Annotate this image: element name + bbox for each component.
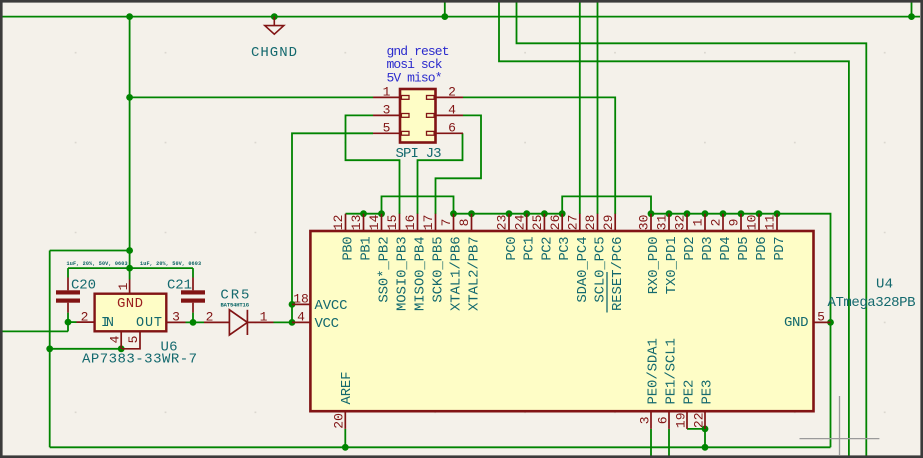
junction MCU pin24	[523, 210, 530, 217]
U4 pin 32 (PD2) - stub	[686, 214, 688, 231]
U4 pin 19 (PE2) - stub	[686, 411, 688, 429]
wire - SPI pin5 5V net down to AVCC/VCC	[292, 133, 373, 322]
svg-text:VCC: VCC	[315, 316, 340, 332]
junction left rail / SPI pin1 wire	[126, 94, 133, 101]
svg-text:RX0_PD0: RX0_PD0	[646, 236, 662, 294]
svg-text:SDA0_PC4: SDA0_PC4	[575, 236, 591, 302]
svg-text:2: 2	[206, 309, 214, 324]
junction top rail / left rail	[126, 13, 133, 20]
wire - horizontal y=250.5 from x=49.7 to left rail	[50, 250, 130, 252]
svg-text:TX0_PD1: TX0_PD1	[664, 236, 680, 294]
junction C20 bottom / U6 IN	[65, 319, 72, 326]
svg-text:26: 26	[548, 215, 563, 231]
wire - left vertical x=49.7 down to bottom rail	[49, 251, 51, 448]
power symbol CHGND - stem	[273, 17, 275, 26]
U4 pin 13 (PB1) - stub	[363, 214, 365, 231]
wire - MCU pins 7-26 tie	[454, 213, 563, 215]
connector J3 pin 6 - socket	[427, 131, 435, 135]
svg-text:5V miso*: 5V miso*	[387, 71, 443, 86]
capacitor C20 - bottom lead	[67, 303, 69, 313]
svg-text:6: 6	[655, 416, 670, 424]
svg-text:3: 3	[172, 309, 180, 324]
U4 pin 15 (MOSI0_PB3) - stub	[399, 214, 401, 231]
svg-text:9: 9	[727, 218, 742, 226]
svg-text:4: 4	[448, 103, 456, 118]
connector J3 - body	[400, 89, 436, 143]
diode CR5 - cathode bar	[246, 310, 248, 335]
U4 pin 18 (AVCC) - stub	[292, 303, 310, 305]
U4 pin 31 (TX0_PD1) - stub	[668, 214, 670, 231]
capacitor C21 - spec text 1uF 20% 50V 0603	[140, 261, 201, 267]
svg-text:XTAL1/PB6: XTAL1/PB6	[449, 236, 465, 311]
junction MCU pin11	[774, 210, 781, 217]
connector J3 pin 4 - stub	[436, 114, 464, 116]
junction MCU pin9	[738, 210, 745, 217]
svg-text:AVCC: AVCC	[315, 298, 348, 314]
junction top rail / top stub	[441, 13, 448, 20]
junction PE3 pin	[702, 426, 709, 433]
junction MCU pin14	[378, 210, 385, 217]
U4 pin 5 (GND) - stub	[814, 321, 831, 323]
U4 pin 26 (PC3) - stub	[561, 214, 563, 231]
svg-text:2: 2	[448, 85, 456, 100]
svg-text:GND: GND	[784, 315, 809, 331]
svg-text:32: 32	[673, 215, 688, 231]
svg-text:PB0: PB0	[341, 236, 357, 260]
regulator U6 pin 1 - stub	[129, 280, 131, 294]
U4 pin 22 (PE3) - stub	[704, 411, 706, 429]
svg-text:29: 29	[601, 215, 616, 231]
regulator U6 pin 5 - stub (bent)	[122, 331, 140, 349]
capacitor C21 - bottom lead	[192, 303, 194, 313]
svg-text:PE3: PE3	[700, 380, 716, 405]
svg-text:31: 31	[655, 214, 670, 230]
svg-text:2: 2	[81, 309, 89, 324]
svg-text:5: 5	[383, 121, 391, 136]
cursor crosshair - vertical	[839, 396, 841, 455]
U4 pin 1 (PD3) - stub	[704, 214, 706, 231]
wire - AREF pin drop to bottom rail	[344, 429, 346, 447]
connector J3 pin 1 - socket	[401, 96, 409, 100]
U4 pin 10 (PD6) - stub	[758, 214, 760, 231]
U4 pin 9 (PD5) - stub	[740, 214, 742, 231]
IC U4 ATmega328PB - body	[310, 231, 813, 411]
wire - riser pin14 to upper bus	[382, 196, 454, 213]
svg-text:30: 30	[637, 215, 652, 231]
junction left rail / cap tie	[126, 265, 133, 272]
capacitor C20 - top plate	[56, 290, 80, 294]
junction MCU pin23	[506, 210, 513, 217]
capacitor C21 - bottom plate	[181, 299, 205, 303]
U4 pin 16 (MISO0_PB4) - stub	[417, 214, 419, 231]
connector J3 pin 5 - socket	[401, 131, 409, 135]
wire - jog pin26 over pins27-29 to pin30	[562, 196, 651, 213]
U4 pin 6 (PE1/SCL1) - stub	[668, 411, 670, 429]
wire - stub from top border to top rail at x=911.5	[911, 1, 913, 17]
U4 pin 4 (VCC) - stub	[292, 321, 310, 323]
wire - U6 OUT to CR5 anode	[186, 321, 205, 323]
U4 pin 7 (XTAL1/PB6) - stub	[453, 214, 455, 231]
connector J3 pin 3 - stub	[373, 114, 400, 116]
junction MCU pin2	[720, 210, 727, 217]
svg-text:1uF, 20%, 50V, 0603: 1uF, 20%, 50V, 0603	[140, 261, 201, 267]
diode CR5 pin 1 - stub (cathode)	[247, 321, 273, 323]
wire - C21 top lead drop	[192, 268, 194, 277]
regulator U6 pin 2 - stub	[77, 321, 95, 323]
junction MCU pin8	[468, 210, 475, 217]
svg-text:5: 5	[126, 336, 141, 344]
svg-text:5: 5	[817, 310, 825, 325]
junction U6 pin4/pin5 tie	[118, 345, 125, 352]
U4 pin 29 - RESET overline	[606, 272, 608, 313]
svg-text:23: 23	[495, 215, 510, 231]
diode CR5 pin 2 - stub (anode)	[204, 321, 229, 323]
U4 pin 17 (SCK0_PB5) - stub	[435, 214, 437, 231]
svg-text:PC1: PC1	[522, 236, 538, 260]
U4 pin 14 (SS0*_PB2) - stub	[381, 214, 383, 231]
U4 pin 27 (SDA0_PC4) - stub	[579, 214, 581, 231]
svg-text:3: 3	[383, 103, 391, 118]
svg-text:18: 18	[293, 292, 309, 307]
regulator U6 - body	[95, 294, 167, 332]
svg-text:27: 27	[565, 215, 580, 231]
capacitor C21 - top lead	[192, 278, 194, 291]
svg-text:17: 17	[421, 215, 436, 231]
U4 pin 8 (XTAL2/PB7) - stub	[471, 214, 473, 231]
svg-text:PE2: PE2	[682, 380, 698, 405]
power symbol CHGND - open triangle	[265, 26, 284, 35]
junction AREF / bottom rail	[342, 444, 349, 451]
U4 pin 24 (PC1) - stub	[526, 214, 528, 231]
svg-text:6: 6	[448, 121, 456, 136]
wire - net from top border, corner at y=61.3 to x=848.9 down to bottom border	[499, 1, 849, 456]
connector J3 pin 3 - socket	[401, 114, 409, 118]
capacitor C20 - top lead	[67, 278, 69, 291]
junction C21 bottom / OUT net	[190, 319, 197, 326]
junction MCU pin1	[702, 210, 709, 217]
connector J3 pin 4 - socket	[427, 114, 435, 118]
svg-text:PD3: PD3	[700, 236, 716, 260]
svg-text:PD6: PD6	[754, 236, 770, 260]
svg-text:SCK0_PB5: SCK0_PB5	[431, 236, 447, 302]
svg-text:16: 16	[403, 215, 418, 231]
svg-text:24: 24	[512, 214, 527, 230]
diode CR5 - part number BAT54HT1G	[221, 302, 250, 309]
junction top rail / CHGND	[271, 13, 278, 20]
svg-text:8: 8	[457, 218, 472, 226]
U4 pin 20 (AREF) - stub	[344, 411, 346, 429]
U4 pin 25 (PC2) - stub	[543, 214, 545, 231]
regulator U6 pin 3 - stub	[166, 321, 185, 323]
svg-text:1: 1	[260, 309, 268, 324]
wire - pin11 net right side down to bottom rail (through GND pin)	[777, 214, 831, 448]
wire - C20 bottom lead / U6 IN junction vertical	[67, 313, 69, 332]
svg-text:PC2: PC2	[539, 236, 555, 260]
svg-text:MOSI0_PB3: MOSI0_PB3	[395, 236, 411, 311]
svg-text:28: 28	[583, 215, 598, 231]
svg-text:AP7383-33WR-7: AP7383-33WR-7	[82, 352, 197, 368]
connector J3 pin 2 - stub	[436, 96, 464, 98]
wire - stub from top border to top rail at x=444.8	[444, 1, 446, 17]
svg-text:PC0: PC0	[504, 236, 520, 260]
cursor crosshair - horizontal	[800, 438, 880, 440]
svg-text:2: 2	[709, 218, 724, 226]
svg-text:25: 25	[530, 215, 545, 231]
U4 pin 28 (SCL0_PC5) - stub	[597, 214, 599, 231]
wire - SPI pin3 MOSI net to MCU pin15	[346, 115, 400, 214]
wire - net from top border, corner at y=43.3 to x=866.3 down to bottom border	[517, 1, 867, 456]
svg-text:PE0/SDA1: PE0/SDA1	[646, 338, 662, 404]
connector J3 pin 1 - stub	[373, 96, 400, 98]
junction left rail / y250 wire	[126, 247, 133, 254]
svg-text:CHGND: CHGND	[251, 45, 297, 61]
svg-text:15: 15	[385, 215, 400, 231]
svg-text:1: 1	[116, 282, 131, 290]
svg-text:OUT: OUT	[136, 316, 162, 331]
svg-text:AREF: AREF	[339, 372, 355, 405]
capacitor C21 - top plate	[181, 290, 205, 294]
capacitor C20 - bottom plate	[56, 299, 80, 303]
junction MCU pin25	[541, 210, 548, 217]
svg-text:1: 1	[383, 85, 391, 100]
diode CR5 - triangle	[229, 310, 247, 335]
svg-text:PC3: PC3	[557, 236, 573, 260]
svg-text:PD5: PD5	[736, 236, 752, 260]
svg-text:11: 11	[763, 214, 778, 230]
svg-text:1: 1	[691, 218, 706, 226]
svg-text:MISO0_PB4: MISO0_PB4	[413, 236, 429, 311]
svg-text:19: 19	[673, 412, 688, 428]
svg-text:1uF, 20%, 50V, 0603: 1uF, 20%, 50V, 0603	[67, 261, 128, 267]
wire - SPI pin2 reset net to MCU pin29	[463, 97, 615, 214]
connector J3 pin 5 - stub	[373, 132, 400, 134]
svg-text:7: 7	[439, 218, 454, 226]
junction MCU pin31	[666, 210, 673, 217]
svg-text:10: 10	[745, 215, 760, 231]
svg-text:SS0*_PB2: SS0*_PB2	[377, 236, 393, 302]
wire - U6 pins 4/5 ground tie y=348.8	[50, 348, 122, 350]
wire - net entering from left border y=331.4	[2, 330, 68, 332]
wire - SPI pin6 MISO net to MCU pin16	[418, 133, 463, 214]
junction MCU pin30	[648, 210, 655, 217]
wire - C20/C21 top tie y=268.1	[68, 267, 193, 269]
wire - CR5 cathode to VCC	[274, 321, 293, 323]
svg-text:GND: GND	[117, 296, 143, 312]
wire - PE3 drop to bottom rail	[704, 429, 706, 447]
junction MCU pin13	[360, 210, 367, 217]
junction MCU GND pin5	[827, 319, 834, 326]
svg-text:PE1/SCL1: PE1/SCL1	[664, 338, 680, 404]
wire - vertical from top border to MCU pin27	[579, 1, 581, 214]
svg-text:XTAL2/PB7: XTAL2/PB7	[467, 236, 483, 311]
svg-text:IN: IN	[101, 316, 114, 331]
svg-text:ATmega328PB: ATmega328PB	[828, 295, 916, 311]
svg-text:SPI J3: SPI J3	[396, 146, 442, 162]
svg-text:4: 4	[107, 335, 122, 343]
junction PE3 / bottom rail	[702, 444, 709, 451]
regulator U6 pin 4 - stub	[120, 331, 122, 349]
wire - MCU pins 30-11 tie	[651, 213, 777, 215]
junction AVCC	[289, 301, 296, 308]
svg-text:20: 20	[332, 413, 347, 429]
junction MCU pin10	[756, 210, 763, 217]
U4 pin 3 (PE0/SDA1) - stub	[650, 411, 652, 429]
svg-text:PD4: PD4	[718, 236, 734, 260]
U4 pin 2 (PD4) - stub	[722, 214, 724, 231]
wire - C21 bottom lead to OUT net	[192, 313, 194, 323]
U4 pin 12 (PB0) - stub	[345, 214, 347, 231]
wire - top horizontal rail y=16.6	[2, 16, 920, 18]
junction MCU pin7	[450, 210, 457, 217]
svg-text:3: 3	[637, 416, 652, 424]
svg-text:PB1: PB1	[359, 236, 375, 260]
U4 pin 29 (RESET/PC6) - stub	[614, 214, 616, 231]
wire - SPI pin4 SCK net to MCU pin17	[436, 115, 482, 214]
connector J3 pin 2 - socket	[427, 96, 435, 100]
svg-text:PD7: PD7	[772, 236, 788, 260]
svg-text:U4: U4	[876, 277, 893, 293]
junction VCC	[289, 319, 296, 326]
svg-text:SCL0_PC5: SCL0_PC5	[593, 236, 609, 302]
wire - branch to U6 IN pin	[68, 321, 77, 323]
wire - vertical from top border to MCU pin28	[597, 1, 599, 214]
svg-text:4: 4	[297, 310, 305, 325]
U4 pin 23 (PC0) - stub	[508, 214, 510, 231]
junction MCU pin26	[559, 210, 566, 217]
wire - bottom ground rail y=447.3	[50, 446, 831, 448]
junction MCU pin32	[684, 210, 691, 217]
svg-text:22: 22	[691, 412, 706, 428]
wire - PE1 pin drop to bottom border	[668, 429, 670, 456]
wire - SPI pin1 horizontal y=97.4	[130, 96, 373, 98]
svg-text:RESET/PC6: RESET/PC6	[610, 236, 626, 311]
svg-text:12: 12	[331, 215, 346, 231]
svg-text:13: 13	[349, 215, 364, 231]
U4 pin 11 (PD7) - stub	[776, 214, 778, 231]
junction left vertical / U6 gnd tie	[46, 345, 53, 352]
svg-text:BAT54HT1G: BAT54HT1G	[221, 302, 250, 309]
wire - MCU pins 12-14 tie	[346, 213, 382, 215]
wire - PE2 to PE3 tie	[687, 428, 705, 430]
svg-text:PD2: PD2	[682, 236, 698, 260]
svg-text:14: 14	[367, 214, 382, 230]
wire - C20 top lead drop	[67, 268, 69, 277]
junction top rail / right stub	[908, 13, 915, 20]
capacitor C20 - spec text 1uF 20% 50V 0603	[67, 261, 128, 267]
wire - PE0 pin drop to bottom border	[650, 429, 652, 456]
connector J3 pin 6 - stub	[436, 132, 464, 134]
wire - left vertical rail x=129.6 (top rail down to U6 pin 1)	[129, 17, 131, 280]
U4 pin 30 (RX0_PD0) - stub	[650, 214, 652, 231]
